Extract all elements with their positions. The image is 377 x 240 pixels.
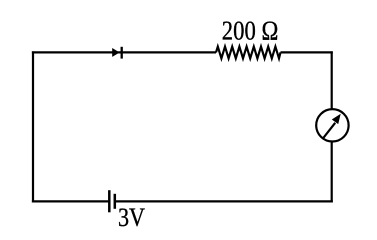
svg-text:3V: 3V [118, 203, 145, 232]
svg-text:200 Ω: 200 Ω [222, 16, 278, 46]
